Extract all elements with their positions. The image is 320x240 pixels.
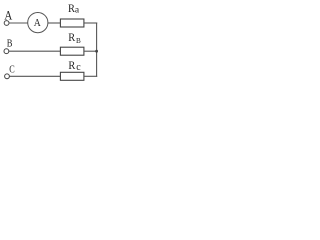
- resistor Ra box: [60, 19, 84, 27]
- junction node at bus and RB: [95, 50, 98, 53]
- wire terminal C to resistor Rc: [10, 75, 61, 77]
- wire resistor Ra to bus: [84, 22, 97, 24]
- wire resistor RB to bus: [84, 50, 97, 52]
- resistor Rc box: [60, 72, 84, 80]
- wire terminal A to ammeter: [9, 22, 28, 24]
- terminal B: [4, 49, 9, 54]
- wire terminal B to resistor RB: [9, 50, 61, 52]
- background: [0, 0, 108, 92]
- svg-text:B: B: [76, 37, 81, 45]
- svg-text:R: R: [68, 60, 75, 73]
- bus wire right vertical: [96, 23, 98, 77]
- wire ammeter to resistor Ra: [48, 22, 61, 24]
- svg-text:C: C: [9, 64, 14, 75]
- terminal A: [4, 21, 9, 26]
- svg-text:c: c: [76, 62, 81, 73]
- svg-text:R: R: [68, 32, 75, 45]
- ammeter U1: [28, 13, 48, 33]
- wire resistor Rc to bus: [84, 75, 97, 77]
- resistor RB box: [60, 47, 84, 55]
- svg-text:B: B: [7, 38, 13, 50]
- svg-text:A: A: [4, 7, 12, 22]
- svg-text:A: A: [34, 18, 42, 30]
- terminal C: [5, 74, 10, 79]
